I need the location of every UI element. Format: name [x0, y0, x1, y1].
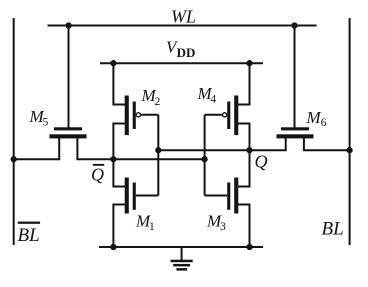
wire M2 gate from bubble to left gate column	[141, 114, 158, 116]
transistor M4 channel bar	[234, 96, 238, 136]
wire WL word line	[48, 25, 317, 27]
svg-text:3: 3	[220, 221, 226, 233]
junction dot ground rail / M1 source	[110, 244, 116, 250]
svg-text:5: 5	[43, 117, 49, 129]
wire BLbar to M5 source	[14, 138, 60, 159]
wire M6 gate drop from WL	[294, 26, 296, 128]
transistor M1 gate bar	[133, 183, 136, 210]
junction dot node Qbar	[110, 156, 116, 162]
wire bit line BL (right)	[349, 18, 351, 245]
wire M5 drain across node Qbar to right gate column	[77, 138, 204, 159]
wire M3 source to ground rail	[238, 205, 250, 248]
svg-text:2: 2	[155, 96, 161, 108]
junction dot WL / M6 gate	[291, 22, 297, 28]
transistor M2 channel bar	[125, 96, 129, 136]
transistor M6 channel bar	[277, 134, 314, 138]
wire M5 gate drop from WL	[68, 26, 70, 128]
junction dot node Q	[246, 147, 252, 153]
svg-text:M: M	[306, 108, 322, 127]
wire M2 drain to node Qbar to M1 drain	[113, 124, 125, 187]
svg-text:1: 1	[149, 221, 155, 233]
wire left gate column (driven by Q)	[157, 115, 159, 196]
transistor M5 gate bar	[54, 127, 82, 130]
transistor M3 gate bar	[227, 183, 230, 210]
svg-text:6: 6	[321, 117, 327, 129]
wire right gate column (driven by Qbar)	[204, 115, 206, 196]
wire M1 source to ground rail	[113, 205, 125, 248]
junction dot Qbar rail / right gate column	[201, 156, 207, 162]
wire bit line BLbar (left)	[13, 18, 15, 245]
wire M4 drain to node Q to M3 drain	[238, 124, 250, 187]
transistor M5 channel bar	[50, 134, 87, 138]
ground symbol	[171, 247, 193, 271]
junction dot VDD / M2 source	[110, 60, 116, 66]
svg-text:WL: WL	[171, 6, 196, 26]
svg-text:BL: BL	[322, 218, 344, 239]
transistor M3 channel bar	[234, 178, 238, 214]
svg-text:BL: BL	[18, 225, 40, 246]
transistor M4 PMOS bubble	[223, 113, 227, 117]
junction dot VDD / M4 source	[246, 60, 252, 66]
wire M4 gate from bubble to right gate column	[205, 114, 222, 116]
wire M4 source drop from VDD	[238, 63, 250, 104]
svg-text:DD: DD	[177, 45, 196, 60]
junction dot WL / M5 gate	[65, 22, 71, 28]
transistor M2 PMOS bubble	[136, 113, 140, 117]
wire VDD supply rail	[100, 62, 263, 64]
junction dot Q rail / left gate column	[155, 147, 161, 153]
junction dot BLbar / M5	[11, 156, 17, 162]
transistor M2 gate bar	[133, 102, 136, 130]
transistor M1 channel bar	[125, 178, 129, 214]
svg-text:Q: Q	[255, 151, 268, 171]
svg-text:4: 4	[211, 93, 217, 105]
wire ground rail	[99, 246, 263, 248]
wire M6 drain to BL	[304, 138, 350, 150]
junction dot BL / M6	[346, 147, 352, 153]
wire M3 gate to right gate column	[205, 195, 228, 197]
wire M1 gate to left gate column	[136, 195, 159, 197]
transistor M6 gate bar	[281, 127, 309, 130]
junction dot ground rail / M3 source	[246, 244, 252, 250]
wire node Q cross-coupling from left gate column to M6 source	[158, 138, 285, 150]
svg-text:Q: Q	[91, 164, 104, 184]
transistor M4 gate bar	[227, 102, 230, 130]
wire M2 source drop from VDD	[113, 63, 125, 104]
